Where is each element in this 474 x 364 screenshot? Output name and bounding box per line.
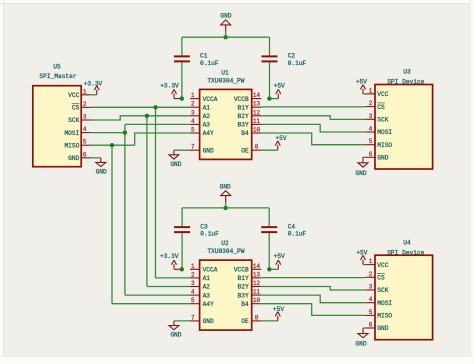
- svg-text:12: 12: [253, 109, 261, 116]
- svg-text:10: 10: [253, 127, 261, 134]
- svg-text:+5V: +5V: [356, 249, 367, 256]
- junction on GND rail top: [223, 35, 227, 39]
- svg-text:A2: A2: [203, 284, 211, 291]
- power +5V at U3 VCC: [356, 79, 367, 94]
- junction SCK net: [145, 114, 149, 118]
- svg-text:VCCB: VCCB: [234, 96, 249, 103]
- svg-text:8: 8: [255, 144, 259, 151]
- wire MISO net: [91, 133, 190, 304]
- svg-text:B1Y: B1Y: [238, 275, 249, 282]
- svg-text:13: 13: [253, 101, 261, 108]
- svg-text:14: 14: [253, 263, 261, 270]
- capacitor C1: [174, 37, 219, 98]
- svg-text:GND: GND: [203, 318, 214, 325]
- svg-text:MISO: MISO: [377, 142, 392, 149]
- svg-text:B4: B4: [241, 130, 249, 137]
- svg-text:SCK: SCK: [377, 287, 388, 294]
- svg-text:SCK: SCK: [377, 117, 388, 124]
- svg-text:U1: U1: [221, 69, 229, 76]
- svg-text:6: 6: [369, 151, 373, 158]
- ground symbol top rail: [220, 13, 231, 38]
- svg-text:GND: GND: [203, 147, 214, 154]
- svg-text:11: 11: [253, 289, 261, 296]
- junction at U2 VCCB: [267, 267, 271, 271]
- ground at U5 pin 6: [91, 158, 107, 176]
- svg-text:6: 6: [83, 151, 87, 158]
- svg-text:1: 1: [369, 87, 373, 94]
- wire CS net: [91, 107, 190, 278]
- svg-text:7: 7: [191, 144, 195, 151]
- svg-text:A4Y: A4Y: [203, 130, 214, 137]
- svg-text:1: 1: [191, 263, 195, 270]
- wire MOSI net: [91, 124, 190, 295]
- svg-text:2: 2: [191, 271, 195, 278]
- wire B1Y to U3 CS: [261, 106, 365, 108]
- svg-text:VCCA: VCCA: [203, 267, 218, 274]
- svg-text:5: 5: [369, 309, 373, 316]
- svg-text:VCC: VCC: [68, 92, 79, 99]
- wire B1Y to U4 CS: [261, 277, 365, 279]
- svg-text:0.1uF: 0.1uF: [200, 60, 219, 67]
- svg-text:VCC: VCC: [377, 262, 388, 269]
- svg-text:MISO: MISO: [64, 142, 79, 149]
- svg-text:U4: U4: [403, 239, 411, 246]
- ground symbol bottom rail: [220, 183, 231, 208]
- svg-text:+3.3V: +3.3V: [160, 83, 179, 90]
- svg-text:GND: GND: [377, 155, 388, 162]
- svg-text:GND: GND: [170, 161, 181, 168]
- svg-text:TXU0304_PW: TXU0304_PW: [207, 78, 244, 85]
- svg-text:2: 2: [83, 101, 87, 108]
- svg-text:GND: GND: [68, 155, 79, 162]
- junction MISO net: [110, 143, 114, 147]
- wire B2Y to U3 SCK: [261, 116, 365, 120]
- svg-text:+3.3V: +3.3V: [160, 253, 179, 260]
- svg-text:MOSI: MOSI: [377, 129, 392, 136]
- svg-text:SCK: SCK: [68, 117, 79, 124]
- svg-text:U3: U3: [403, 69, 411, 76]
- svg-text:GND: GND: [220, 13, 231, 20]
- wire B3Y to U3 MOSI: [261, 124, 365, 132]
- svg-text:OE: OE: [241, 147, 249, 154]
- svg-text:CS: CS: [72, 105, 80, 112]
- ground at U2 pin 7: [169, 321, 190, 339]
- wire B4 to U3 MISO: [261, 133, 365, 145]
- svg-text:U2: U2: [221, 240, 229, 247]
- wire B4 to U4 MISO: [261, 304, 365, 316]
- ground at U3 pin 6: [355, 157, 368, 177]
- svg-text:+5V: +5V: [274, 253, 285, 260]
- svg-text:MISO: MISO: [377, 313, 392, 320]
- power +5V at U1 VCCB: [269, 82, 285, 98]
- svg-text:7: 7: [191, 314, 195, 321]
- IC U1 TXU0304_PW: [190, 69, 261, 159]
- svg-text:GND: GND: [220, 183, 231, 190]
- svg-text:C2: C2: [288, 53, 296, 60]
- junction MOSI net: [123, 130, 127, 134]
- IC U4 SPI_Device: [365, 239, 432, 339]
- svg-text:+5V: +5V: [275, 135, 286, 142]
- junction at U1 VCCB: [267, 96, 271, 100]
- svg-text:5: 5: [369, 138, 373, 145]
- power +3.3V at U2 VCCA: [160, 253, 182, 269]
- svg-text:C1: C1: [200, 53, 208, 60]
- svg-text:+5V: +5V: [356, 79, 367, 86]
- svg-text:10: 10: [253, 297, 261, 304]
- svg-text:VCCA: VCCA: [203, 96, 218, 103]
- svg-text:6: 6: [369, 322, 373, 329]
- svg-text:A1: A1: [203, 104, 211, 111]
- svg-text:2: 2: [369, 271, 373, 278]
- power +5V at U4 VCC: [356, 249, 367, 264]
- svg-text:3: 3: [191, 280, 195, 287]
- svg-text:OE: OE: [241, 318, 249, 325]
- svg-text:+5V: +5V: [273, 306, 284, 313]
- svg-text:5: 5: [191, 127, 195, 134]
- svg-text:MOSI: MOSI: [377, 300, 392, 307]
- svg-text:0.1uF: 0.1uF: [288, 60, 307, 67]
- svg-text:U5: U5: [53, 64, 61, 71]
- svg-text:4: 4: [191, 289, 195, 296]
- svg-text:A3: A3: [203, 122, 211, 129]
- svg-text:4: 4: [191, 118, 195, 125]
- svg-text:B3Y: B3Y: [238, 122, 249, 129]
- svg-text:TXU0304_PW: TXU0304_PW: [207, 248, 244, 255]
- wire GND rail bottom: [182, 207, 269, 209]
- svg-text:MOSI: MOSI: [64, 130, 79, 137]
- svg-text:B2Y: B2Y: [238, 113, 249, 120]
- svg-text:14: 14: [253, 92, 261, 99]
- svg-text:+5V: +5V: [274, 82, 285, 89]
- svg-text:GND: GND: [355, 341, 366, 348]
- svg-text:5: 5: [83, 139, 87, 146]
- IC U2 TXU0304_PW: [190, 240, 261, 330]
- svg-text:3: 3: [369, 113, 373, 120]
- power +5V at U1 OE: [261, 135, 287, 150]
- power +3.3V at U5 VCC: [84, 80, 103, 94]
- svg-text:SPI_Device: SPI_Device: [387, 79, 424, 86]
- svg-text:4: 4: [369, 126, 373, 133]
- svg-text:GND: GND: [377, 325, 388, 332]
- wire SCK net: [91, 116, 190, 287]
- svg-text:3: 3: [369, 284, 373, 291]
- svg-text:0.1uF: 0.1uF: [200, 231, 219, 238]
- svg-text:3: 3: [191, 109, 195, 116]
- junction on GND rail bottom: [223, 206, 227, 210]
- svg-text:4: 4: [369, 296, 373, 303]
- svg-text:CS: CS: [377, 275, 385, 282]
- svg-text:B3Y: B3Y: [238, 292, 249, 299]
- capacitor C2: [262, 37, 307, 98]
- svg-text:B1Y: B1Y: [238, 104, 249, 111]
- svg-text:5: 5: [191, 297, 195, 304]
- svg-text:+3.3V: +3.3V: [84, 80, 103, 87]
- svg-text:B2Y: B2Y: [238, 284, 249, 291]
- svg-text:C4: C4: [288, 223, 296, 230]
- svg-text:A3: A3: [203, 292, 211, 299]
- svg-text:C3: C3: [200, 223, 208, 230]
- svg-text:CS: CS: [377, 104, 385, 111]
- svg-text:13: 13: [253, 271, 261, 278]
- svg-text:VCCB: VCCB: [234, 267, 249, 274]
- wire B2Y to U4 SCK: [261, 287, 365, 291]
- svg-text:3: 3: [83, 114, 87, 121]
- wire GND rail top: [182, 36, 270, 38]
- capacitor C3: [174, 208, 219, 269]
- junction at U1 VCCA: [180, 96, 184, 100]
- capacitor C4: [261, 208, 306, 269]
- IC U3 SPI_Device: [365, 69, 432, 169]
- svg-text:SPI_Device: SPI_Device: [387, 249, 424, 256]
- svg-text:SPI_Master: SPI_Master: [39, 73, 76, 80]
- svg-text:1: 1: [191, 92, 195, 99]
- svg-text:0.1uF: 0.1uF: [288, 231, 307, 238]
- power +5V at U2 VCCB: [269, 253, 285, 269]
- svg-text:A4Y: A4Y: [203, 301, 214, 308]
- power +3.3V at U1 VCCA: [160, 83, 182, 99]
- svg-text:1: 1: [83, 88, 87, 95]
- svg-text:2: 2: [191, 101, 195, 108]
- ground at U4 pin 6: [355, 328, 368, 348]
- junction CS net: [153, 105, 157, 109]
- svg-text:8: 8: [255, 314, 259, 321]
- svg-text:4: 4: [83, 126, 87, 133]
- IC U5 SPI_Master: [33, 64, 91, 167]
- ground at U1 pin 7: [169, 150, 190, 168]
- svg-text:B4: B4: [241, 301, 249, 308]
- svg-text:A1: A1: [203, 275, 211, 282]
- wire B3Y to U4 MOSI: [261, 295, 365, 303]
- svg-text:12: 12: [253, 280, 261, 287]
- svg-text:GND: GND: [96, 168, 107, 175]
- svg-text:1: 1: [369, 258, 373, 265]
- junction at U2 VCCA: [180, 267, 184, 271]
- svg-text:A2: A2: [203, 113, 211, 120]
- svg-text:11: 11: [253, 118, 261, 125]
- power +5V at U2 OE: [261, 306, 284, 321]
- svg-text:GND: GND: [355, 170, 366, 177]
- svg-text:2: 2: [369, 100, 373, 107]
- svg-text:VCC: VCC: [377, 91, 388, 98]
- svg-text:GND: GND: [170, 332, 181, 339]
